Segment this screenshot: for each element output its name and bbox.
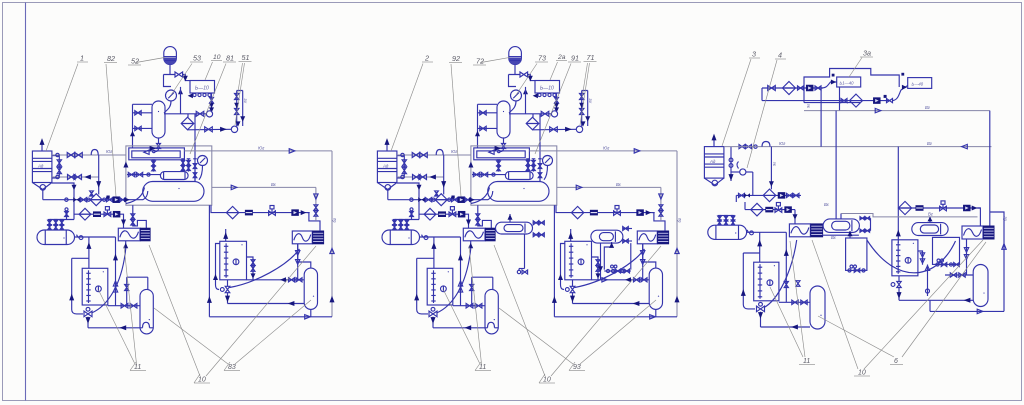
leader 83 from cylinder2 <box>235 300 311 364</box>
stub valves under row A <box>66 211 68 220</box>
valve on column2 <box>251 266 255 272</box>
vessel outlet wire <box>75 236 116 238</box>
valve on hose <box>796 281 800 287</box>
s3 U hose under tank <box>867 240 956 273</box>
svg-text:4: 4 <box>778 51 782 60</box>
svg-text:2а: 2а <box>557 54 566 61</box>
svg-text:53: 53 <box>193 54 201 63</box>
svg-text:9г: 9г <box>772 162 777 166</box>
pipe bridge over cylinder wall <box>143 322 150 328</box>
evaporator HX1 <box>118 228 140 241</box>
leader to label 53 <box>171 64 192 96</box>
valve on riser A lower <box>235 109 239 115</box>
svg-text:83: 83 <box>228 364 236 371</box>
pipe bridge <box>91 150 98 156</box>
valves on line2 near vessel <box>739 145 745 149</box>
flange circle <box>729 158 733 162</box>
vessel left port upper wire <box>133 112 153 114</box>
pump N3 <box>113 196 121 203</box>
measuring tank MB2 <box>220 241 247 279</box>
bottom line to cylinder2 <box>228 303 305 305</box>
gas filter F2 <box>90 194 102 206</box>
leader 83 from cylinder1 <box>154 308 228 364</box>
s3 leader to label 4 <box>747 60 777 168</box>
valve on riser <box>125 285 129 291</box>
needle valves on duct <box>153 160 155 172</box>
junction block <box>832 74 835 77</box>
s3 leader to label 3 <box>722 59 751 146</box>
valve on riser <box>210 97 214 103</box>
right cabinet bottom valves <box>936 263 939 266</box>
condensate cylinder E2 <box>140 289 153 334</box>
valve <box>887 99 893 103</box>
bottom return line <box>88 327 143 329</box>
svg-text:71: 71 <box>587 53 595 62</box>
curved hose to HX2 <box>230 249 300 288</box>
svg-text:73: 73 <box>538 54 546 63</box>
left riser wire <box>132 104 134 148</box>
cylinder top header <box>127 276 148 278</box>
s3 tank MB2' <box>892 240 918 276</box>
s3 leader 11 a <box>790 241 805 357</box>
leader 10 from HX2 hatch <box>206 246 316 376</box>
s3 drop wire <box>760 312 762 327</box>
accumulator stem wire <box>169 65 171 75</box>
svg-text:11: 11 <box>134 364 141 371</box>
control box feet rollers <box>193 93 196 96</box>
valve <box>107 198 113 202</box>
vessel A vent arrow <box>509 214 511 222</box>
gas filter <box>763 189 776 202</box>
internal S pipe <box>126 188 145 204</box>
vessel top tap wire <box>133 103 153 105</box>
bottom long return <box>209 316 332 318</box>
s3 long supply line Vg <box>724 146 992 148</box>
riser from filter line to duct <box>194 114 196 159</box>
hose into box B1-40 <box>821 82 837 88</box>
valve <box>815 86 821 90</box>
svg-text:Вг: Вг <box>927 141 932 146</box>
leader to label 10top <box>205 62 213 80</box>
svg-text:Ь—10: Ь—10 <box>195 86 209 92</box>
leader 10 from HX1 hatch <box>149 245 200 376</box>
pump N4 <box>113 211 121 218</box>
cabinet top arrow <box>849 231 851 238</box>
s3 leader 6 a <box>902 242 986 357</box>
block gauge MN2 <box>198 156 208 166</box>
valve <box>57 167 61 173</box>
check arrow into box <box>183 76 188 82</box>
s3 vent arrow <box>713 140 715 147</box>
valve <box>793 193 799 197</box>
upper duct inner <box>132 151 180 158</box>
gas filter F4 <box>226 206 238 218</box>
needle valve pair <box>182 159 184 172</box>
s3 mid cabinet box <box>846 238 867 270</box>
loop left downcomer <box>71 258 73 309</box>
needle valve <box>194 159 196 182</box>
svg-text:3: 3 <box>752 50 756 59</box>
vessel L bottom line <box>823 234 859 236</box>
compressor unit enclosure <box>126 146 212 205</box>
riser to vessel top <box>194 170 196 182</box>
s3 control box B-40 <box>908 78 932 89</box>
svg-text:91: 91 <box>571 54 579 63</box>
gas filter <box>751 203 764 216</box>
riser x115 with checks <box>115 237 117 306</box>
arrow into pump circle <box>236 121 241 126</box>
scheme 2 manifold boot outline <box>604 242 631 270</box>
open arrow in duct <box>144 150 149 154</box>
receiver outlet stubs <box>52 155 59 157</box>
s3 leader 10 b <box>864 240 983 369</box>
flange circle <box>729 164 733 168</box>
svg-text:51: 51 <box>242 53 250 62</box>
check arrow <box>301 210 307 215</box>
valve <box>739 193 745 197</box>
pump N2 (circle) <box>231 126 237 132</box>
striped unit <box>916 205 924 211</box>
control valve <box>940 206 947 211</box>
valve <box>130 303 137 308</box>
flow arrow left <box>119 325 126 330</box>
HX1 to three-way curved hose <box>92 249 126 313</box>
s3 riser x989 right <box>990 111 1004 312</box>
elbow down with checks <box>315 187 317 221</box>
vessel left port lower wire <box>133 127 153 129</box>
s3 jacketed vessel R <box>912 223 948 236</box>
cylinder2 top header <box>298 244 311 268</box>
right long downcomer <box>331 151 333 317</box>
gas filter <box>783 82 796 95</box>
s3 lower return line <box>930 310 1004 312</box>
valve <box>68 175 76 180</box>
gauge to vessel wire <box>199 166 203 180</box>
valve <box>121 303 128 308</box>
s3 vessel R stub <box>929 217 931 223</box>
drop to HX3L <box>794 210 796 224</box>
drop to bottom line <box>87 317 89 328</box>
svg-text:Юг: Юг <box>258 145 264 150</box>
s3 pump circle <box>740 169 746 175</box>
s3 leader 6 b <box>818 316 894 357</box>
gas filter F1 (diamond) <box>181 117 194 130</box>
tank2 fill stub <box>225 229 227 241</box>
s3 pump outlet <box>731 171 740 173</box>
row A curve into vessel <box>143 191 148 200</box>
check arrow down riser A <box>234 103 239 108</box>
oil cooler cylinder <box>160 172 188 180</box>
wire box to pump riser <box>211 93 213 112</box>
s3 right riser with sight glass <box>927 265 929 297</box>
s3 right valve line <box>945 274 973 276</box>
gauge drop wire <box>164 101 171 113</box>
valve <box>67 153 75 158</box>
s3 right cabinet box <box>933 237 960 264</box>
scheme 2 (reuse of scheme 1 core) <box>377 47 682 376</box>
svg-text:Вг: Вг <box>928 211 933 216</box>
vessel A valve pairs <box>533 222 545 224</box>
riser x126 wire <box>126 277 128 306</box>
s3 condensate cylinder R <box>973 265 988 307</box>
cabinet bottom valves <box>848 269 851 272</box>
s3 riser x821 <box>820 88 822 147</box>
s3 stepped outline around boxes <box>804 69 899 103</box>
drain pot <box>750 231 754 235</box>
check arrow <box>124 197 130 202</box>
flow arrow in duct <box>150 146 157 151</box>
svg-text:Юг: Юг <box>106 149 112 154</box>
s3 row2' pipe <box>745 209 795 211</box>
tank2 left short loop <box>216 244 220 290</box>
vessel L top feed stub <box>840 214 842 219</box>
frame inner left margin line <box>25 3 27 401</box>
striped unit <box>245 210 253 216</box>
receiver drain wire <box>42 190 44 200</box>
svg-text:бг: бг <box>332 218 337 222</box>
check arrow down <box>251 273 256 278</box>
manifold of needle valves <box>50 219 75 221</box>
check arrow <box>220 127 227 132</box>
gas filter <box>898 201 911 214</box>
pipe loop to control box <box>164 75 191 87</box>
pipe bridge <box>762 142 770 147</box>
closed valve dark <box>744 193 750 197</box>
boot top arrow <box>609 243 614 248</box>
valve <box>75 153 83 158</box>
valve <box>768 86 776 91</box>
svg-text:10: 10 <box>198 377 206 384</box>
tank-cylinder valve line <box>108 305 140 307</box>
s3 riser x836 to jacketed vessel <box>835 111 837 219</box>
s3 fill riser <box>759 232 761 262</box>
s3 upper transfer line Vg <box>841 214 978 217</box>
valve <box>120 198 126 202</box>
s3 lower line left end <box>929 300 931 311</box>
s3 small riser checks <box>918 251 923 265</box>
valve <box>74 175 82 180</box>
s3 branch riser x786 <box>785 232 787 302</box>
s3 control box B1-40 <box>837 77 861 87</box>
s3 loop <box>743 253 759 309</box>
flow arrow down <box>209 103 214 108</box>
flange circle <box>87 198 90 201</box>
row2 pipe <box>188 128 232 131</box>
nitrogen receiver vessel AD1 <box>32 151 52 183</box>
s3 tank-cylinder valve line <box>779 301 810 303</box>
s3 three-way valve <box>757 306 765 312</box>
valve <box>792 300 798 304</box>
suction valves row <box>127 174 160 176</box>
second supply pipe <box>52 176 99 178</box>
valve <box>205 127 213 132</box>
main supply pipe Yug <box>52 154 126 156</box>
svg-text:92: 92 <box>452 54 460 63</box>
row connectors <box>736 195 745 209</box>
s3 long line 1 <box>804 110 990 112</box>
svg-text:Вх: Вх <box>824 202 830 207</box>
feet arrow <box>188 93 193 98</box>
membrane accumulator (sphere) SB1 <box>164 47 177 65</box>
pipe vessel to filter row <box>164 113 207 115</box>
svg-text:9г: 9г <box>806 104 811 108</box>
gas filter <box>850 94 863 107</box>
s3 right pump row <box>898 207 980 209</box>
elbow into HX3R <box>978 208 981 226</box>
leader 11 from HX1 <box>124 246 137 364</box>
pump <box>806 85 814 92</box>
expansion leg from block bottom <box>133 205 147 228</box>
leader to label 51a <box>237 63 243 98</box>
striped unit <box>765 207 773 213</box>
s3 nitrogen receiver AD3 <box>704 147 724 179</box>
three-way drain valve VR2 <box>220 288 224 292</box>
svg-text:Вг: Вг <box>925 105 930 110</box>
open flow arrow <box>305 315 311 319</box>
s3 riser x752 <box>752 172 754 195</box>
s3 HX3R bottom leg <box>966 239 968 275</box>
s3 leader 11 b <box>770 287 803 357</box>
vessel bottom drain <box>158 138 160 144</box>
s3 row1 pipe <box>762 87 823 89</box>
flange circle <box>103 198 106 201</box>
svg-text:Юг: Юг <box>779 141 785 146</box>
small drain cluster <box>524 234 526 269</box>
s3 row2 pipe <box>762 100 889 102</box>
cylinder2 bottom stub <box>310 309 312 316</box>
pressure line to HX2 top <box>212 186 316 188</box>
valve <box>196 111 204 116</box>
s3 riser x771 <box>770 147 772 190</box>
s3 leader to label 3a <box>849 58 862 78</box>
leader to label 1 <box>46 64 78 152</box>
svg-text:Вх: Вх <box>271 182 277 187</box>
svg-text:52: 52 <box>131 57 139 66</box>
flange circle <box>65 198 68 201</box>
striped unit <box>93 211 101 217</box>
leader to label 52 <box>136 58 165 63</box>
leader to label 51b <box>235 63 245 125</box>
hose into box B-40 <box>892 86 908 101</box>
s3 evaporator HX3L <box>789 224 810 237</box>
row B pipe <box>74 213 121 215</box>
control valve KR1 <box>104 212 111 217</box>
valve <box>135 111 141 115</box>
valve on riser A <box>235 94 239 100</box>
svg-text:Ь—40: Ь—40 <box>912 82 924 87</box>
valve <box>80 198 86 202</box>
valve <box>57 160 61 166</box>
s3 hose curve <box>764 240 797 308</box>
s3 tank riser continues <box>897 240 899 243</box>
tank2 side column <box>247 257 254 280</box>
branch to loop <box>72 257 89 259</box>
valve on riser <box>784 282 788 288</box>
pump N1 (circle) <box>206 111 212 117</box>
s3 receiver stubs <box>730 147 732 174</box>
riser under box B1-40 <box>839 87 841 111</box>
svg-text:11: 11 <box>803 358 810 365</box>
s3 vessel outlet <box>747 231 787 233</box>
control valve <box>775 208 782 213</box>
drop wire <box>227 292 229 303</box>
s3 leader 10 a <box>812 240 858 369</box>
svg-text:82: 82 <box>107 54 115 63</box>
junction block <box>901 73 904 76</box>
svg-text:6: 6 <box>894 358 898 365</box>
svg-text:11: 11 <box>479 364 486 371</box>
s3 drain arrow <box>730 174 732 181</box>
upper duct outer <box>129 148 185 160</box>
s3 row1' pipe <box>736 194 801 196</box>
svg-text:3а: 3а <box>863 49 871 58</box>
s3 riser x898 to tank <box>897 147 899 240</box>
s3 bottom line right subsystem <box>899 299 973 301</box>
leader to label 82 <box>106 64 116 197</box>
pump N5 <box>291 209 299 216</box>
valve <box>135 126 141 130</box>
separator vessel B1 <box>152 101 165 138</box>
pump <box>963 205 971 212</box>
pump aux block <box>884 95 887 98</box>
vessel L right valve pairs <box>859 217 870 219</box>
buffer vessel E1 (horizontal) <box>37 230 75 245</box>
svg-text:бг: бг <box>1003 217 1008 221</box>
s3 jacketed vessel L <box>823 219 859 233</box>
right riser pair wires <box>237 91 243 127</box>
svg-text:81: 81 <box>226 54 234 63</box>
condenser HX2 <box>292 231 312 244</box>
s3 condenser HX3R <box>962 226 983 239</box>
measuring tank MB1 <box>82 268 108 305</box>
top long gas line <box>184 150 332 152</box>
hopper side line <box>52 183 74 220</box>
box side stub arrow <box>178 89 183 95</box>
control valve KR2 <box>269 211 276 216</box>
scheme 2 extra jacketed vessel B <box>591 230 623 243</box>
pump <box>784 206 792 213</box>
svg-text:10: 10 <box>543 377 551 384</box>
open check on downcomer <box>1002 244 1006 250</box>
svg-text:2: 2 <box>424 54 429 63</box>
s3 buffer vessel E1' <box>708 225 747 239</box>
check arrow <box>84 175 91 180</box>
row1 left drop <box>761 88 763 101</box>
drain pot <box>79 236 83 240</box>
condensate cylinder E3 <box>304 268 317 309</box>
pump <box>778 192 786 199</box>
vent arrow on receiver <box>41 144 43 151</box>
svg-text:лг: лг <box>243 99 248 104</box>
valve <box>787 193 793 197</box>
compressor vessel KM1 <box>143 182 204 202</box>
svg-text:10: 10 <box>213 54 221 61</box>
HX2 drop wire <box>297 244 299 280</box>
valve on column <box>251 260 255 266</box>
elbow into HX2 <box>307 213 320 231</box>
pump <box>873 97 881 104</box>
closed valve (dark) <box>73 197 80 202</box>
check arrow <box>972 206 978 211</box>
scheme 2 extra jacketed vessel A <box>496 222 533 234</box>
s3 measuring tank MB1' <box>754 262 779 301</box>
three-way valve VR1 <box>84 311 92 317</box>
wire box underside to filter <box>180 87 182 114</box>
s3 needle manifold <box>720 215 734 217</box>
leader to label 81 <box>190 64 226 155</box>
svg-text:93: 93 <box>573 364 581 371</box>
control box B-10 <box>190 81 215 94</box>
